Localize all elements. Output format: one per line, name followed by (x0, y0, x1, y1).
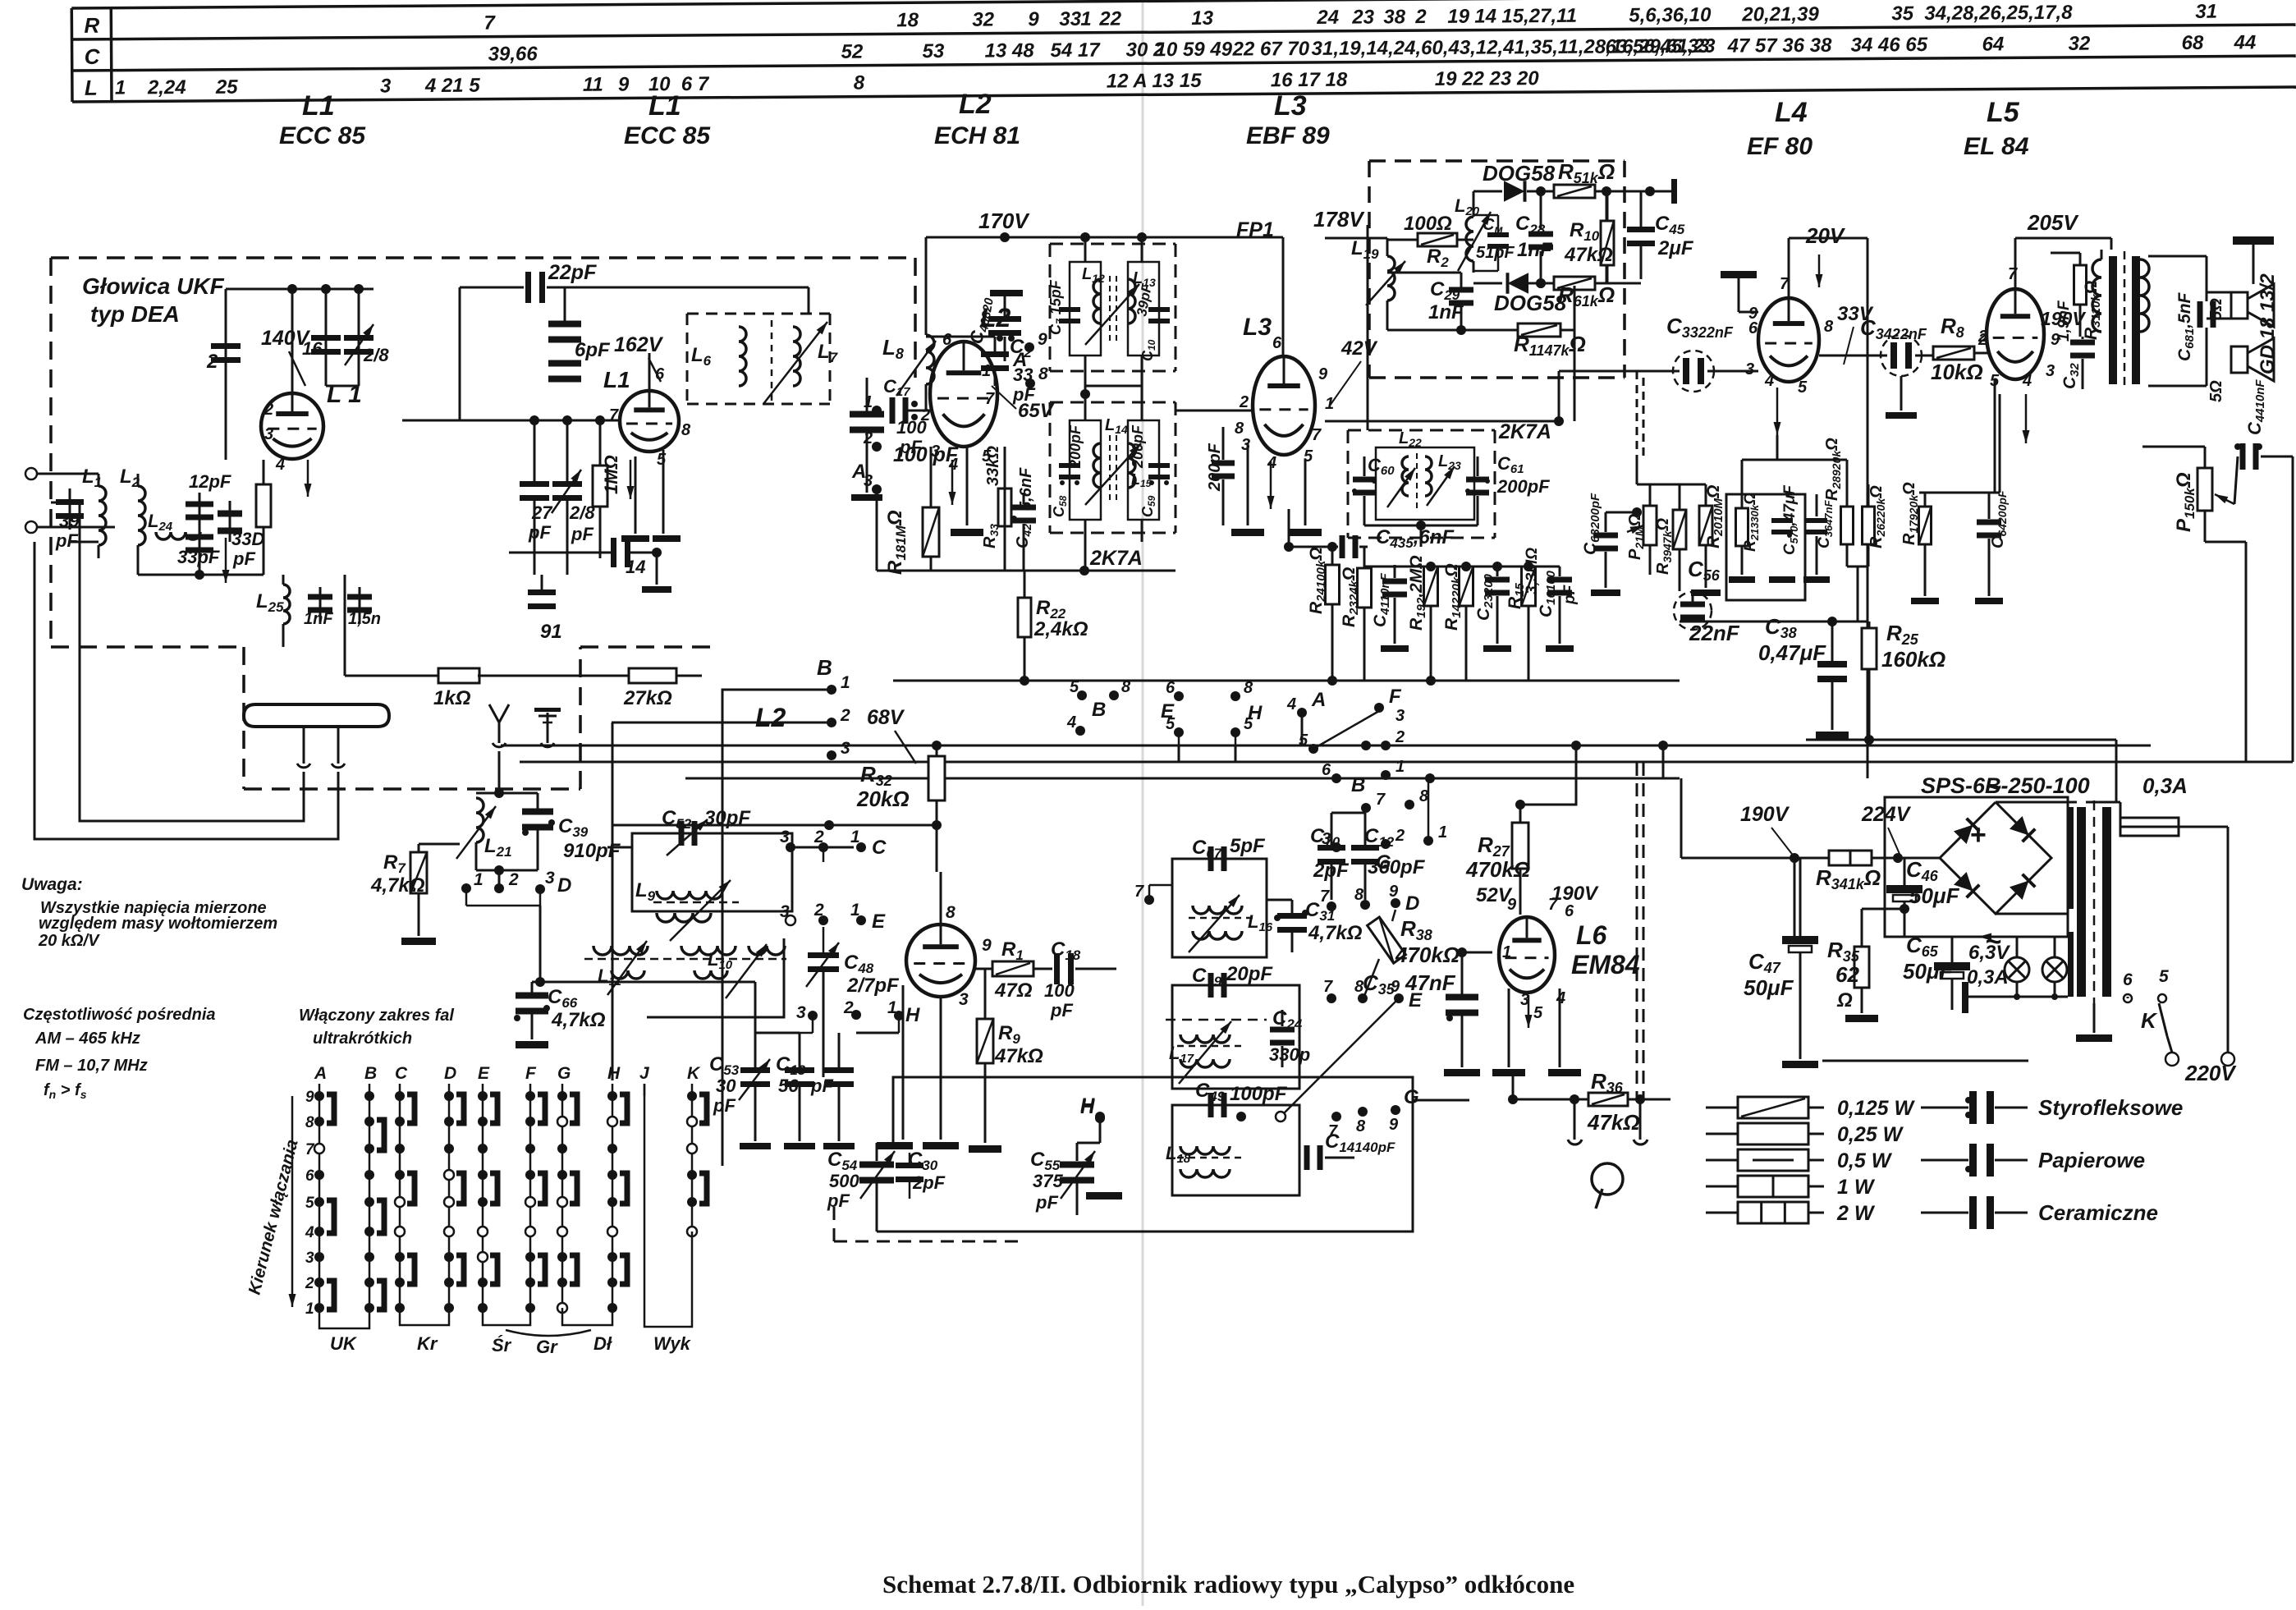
svg-text:2: 2 (206, 351, 218, 373)
svg-text:190V: 190V (1551, 883, 1599, 905)
svg-text:47kΩ: 47kΩ (1587, 1110, 1640, 1135)
svg-text:C60​: C60​ (1368, 455, 1395, 478)
grid input C17 100pF (872, 406, 882, 415)
svg-text:C52​: C52​ (662, 807, 692, 832)
triode 1 of UKF ECC85 (261, 393, 323, 459)
svg-text:6pF: 6pF (575, 339, 611, 361)
capacitor 33pF (199, 532, 201, 568)
svg-text:6: 6 (1748, 319, 1758, 337)
L20 var coil (1466, 217, 1473, 261)
svg-text:C39​: C39​ (558, 815, 589, 840)
FP1 left winding (1070, 262, 1101, 355)
svg-text:13 48: 13 48 (985, 39, 1035, 62)
svg-text:C55​: C55​ (1030, 1149, 1061, 1173)
svg-text:Ceramiczne: Ceramiczne (2038, 1200, 2158, 1225)
svg-text:5pF: 5pF (1230, 835, 1266, 857)
svg-text:4: 4 (275, 456, 285, 474)
svg-text:6 7: 6 7 (681, 73, 710, 95)
wire from D to L11 area (540, 981, 755, 984)
27pF cap (534, 420, 536, 483)
svg-text:6,3V: 6,3V (1968, 942, 2010, 964)
svg-text:1: 1 (1502, 943, 1511, 961)
svg-text:9: 9 (1389, 1116, 1399, 1134)
power transformer (2077, 807, 2086, 997)
1nF cap (319, 587, 322, 624)
svg-text:8: 8 (854, 72, 865, 94)
EM84 tube (1499, 917, 1555, 993)
svg-text:L11​: L11​ (598, 966, 621, 988)
L2 L24 coils (137, 474, 140, 486)
svg-text:R341k​Ω: R341k​Ω (1816, 865, 1881, 892)
svg-text:6: 6 (1272, 334, 1282, 352)
svg-text:1nF: 1nF (304, 610, 333, 628)
svg-text:6: 6 (305, 1167, 314, 1185)
svg-text:3: 3 (841, 739, 850, 758)
svg-text:39,66: 39,66 (488, 43, 538, 65)
svg-text:D: D (557, 874, 571, 897)
oscillator dashed gang line (834, 1241, 1018, 1243)
svg-text:R36​: R36​ (1591, 1069, 1624, 1096)
svg-text:170V: 170V (978, 209, 1030, 233)
svg-text:33: 33 (1059, 8, 1082, 30)
svg-text:25: 25 (215, 76, 239, 99)
svg-text:1 W: 1 W (1837, 1176, 1876, 1199)
P2 1M pot (1643, 506, 1657, 545)
22pF coupling cap (460, 287, 524, 289)
P1 50k potentiometer (2197, 468, 2212, 511)
svg-text:Cм​: Cм​ (1483, 216, 1503, 236)
svg-text:C56​: C56​ (1688, 557, 1721, 584)
svg-text:B: B (1092, 699, 1106, 721)
K switch (2124, 994, 2132, 1002)
svg-text:pF: pF (1561, 584, 1579, 605)
C32 1,9nF (2070, 340, 2095, 346)
svg-text:2: 2 (813, 901, 824, 920)
svg-text:3: 3 (2046, 362, 2055, 380)
svg-text:2 W: 2 W (1836, 1202, 1876, 1225)
CM 51pF trimmer (1487, 232, 1509, 237)
dashed shield lines (1636, 763, 1638, 1100)
svg-text:L8​: L8​ (882, 335, 904, 362)
svg-text:R14220k​Ω: R14220k​Ω (1442, 563, 1464, 631)
svg-text:Uwaga:: Uwaga: (21, 875, 83, 894)
L3 anode wire (1282, 237, 1285, 358)
R32 20kOhm resistor (928, 756, 945, 800)
R7 resistor (410, 852, 427, 893)
oscillator block outline (893, 1077, 1413, 1232)
6pF cap (548, 321, 581, 328)
pins 3 2 1 H (808, 1011, 818, 1021)
svg-text:1,9nF: 1,9nF (2055, 300, 2073, 342)
svg-text:A: A (314, 1064, 327, 1083)
svg-text:51pF: 51pF (1476, 244, 1515, 262)
input terminals (25, 468, 37, 479)
L3 grid wire to FP1 (1175, 410, 1253, 412)
svg-text:2: 2 (1239, 393, 1249, 411)
svg-text:0,3A: 0,3A (2142, 773, 2188, 798)
svg-text:20 kΩ/V: 20 kΩ/V (38, 932, 100, 950)
svg-text:6: 6 (1166, 679, 1175, 697)
C42 5,6nF cap (1011, 505, 1036, 511)
svg-text:8: 8 (681, 421, 691, 439)
svg-text:ultrakrótkich: ultrakrótkich (313, 1030, 412, 1048)
svg-text:7: 7 (609, 406, 619, 424)
svg-text:A: A (1311, 689, 1326, 711)
EM84 grounds (1508, 988, 1510, 1067)
main rail y829 (893, 680, 1680, 682)
svg-text:Wyk: Wyk (653, 1333, 692, 1354)
earth symbol (547, 713, 549, 743)
detector out wire (1574, 330, 1576, 421)
R9 47kOhm (977, 1019, 993, 1063)
svg-text:D: D (444, 1064, 456, 1083)
svg-text:R27​: R27​ (1478, 833, 1510, 860)
svg-text:5,6nF: 5,6nF (1017, 467, 1035, 511)
svg-text:9: 9 (1389, 883, 1399, 901)
output transformer (2092, 259, 2101, 332)
svg-text:4: 4 (1066, 713, 1076, 732)
R26 220k (1863, 507, 1875, 544)
R33 33k resistor (998, 489, 1011, 526)
svg-text:C32​: C32​ (2060, 362, 2082, 389)
svg-text:Gr: Gr (536, 1337, 558, 1357)
L1 input coil (69, 489, 71, 530)
svg-text:5: 5 (1070, 678, 1079, 696)
svg-text:Styrofleksowe: Styrofleksowe (2038, 1095, 2183, 1120)
svg-text:C13​: C13​ (776, 1053, 806, 1078)
svg-text:Śr: Śr (492, 1335, 512, 1355)
svg-text:C23200​: C23200​ (1474, 573, 1496, 621)
svg-text:100pF: 100pF (1230, 1083, 1288, 1105)
svg-text:R181M​Ω: R181M​Ω (884, 510, 909, 575)
svg-text:C17​: C17​ (883, 376, 910, 399)
svg-text:C47​: C47​ (1748, 949, 1781, 976)
svg-text:fn​ > fs​: fn​ > fs​ (44, 1081, 87, 1101)
svg-text:1nF: 1nF (1517, 239, 1553, 261)
R1 47Ohm (975, 968, 992, 970)
L16 coil (1193, 906, 1242, 914)
svg-text:C3322nF​: C3322nF​ (1666, 314, 1734, 341)
svg-text:6: 6 (1322, 761, 1331, 779)
bottom connections (138, 574, 264, 576)
svg-text:C4110nF​: C4110nF​ (1371, 572, 1392, 627)
svg-text:C35​: C35​ (1363, 970, 1395, 998)
svg-text:R9​: R9​ (998, 1022, 1020, 1047)
svg-text:ECC 85: ECC 85 (624, 122, 711, 149)
R35 62 (1854, 947, 1869, 988)
cathode arrow (307, 460, 309, 497)
svg-text:Schemat 2.7.8/II. Odbiornik ra: Schemat 2.7.8/II. Odbiornik radiowy typu… (882, 1570, 1574, 1599)
svg-text:2: 2 (863, 429, 873, 447)
svg-text:162V: 162V (614, 333, 664, 356)
svg-text:2: 2 (1395, 728, 1405, 746)
svg-text:L7​: L7​ (818, 341, 839, 365)
svg-text:A: A (1012, 349, 1027, 371)
L4 tube (1758, 298, 1819, 382)
legend resistor 0,25W (1706, 1133, 1739, 1135)
svg-text:12 A 13 15: 12 A 13 15 (1107, 70, 1202, 93)
C45 2uF (1627, 227, 1655, 232)
svg-text:L5: L5 (1987, 97, 2020, 128)
legend resistor 1W (1706, 1186, 1739, 1188)
svg-text:1: 1 (982, 362, 991, 380)
R2 100 Ohm (1418, 233, 1457, 246)
svg-text:K: K (687, 1064, 701, 1083)
svg-text:3: 3 (1745, 360, 1754, 378)
svg-text:44: 44 (2234, 31, 2257, 53)
R6 1k (1554, 277, 1595, 290)
pins 7 8 9 E (1327, 993, 1336, 1003)
svg-text:C29​: C29​ (1430, 278, 1460, 303)
svg-text:2pF: 2pF (912, 1172, 946, 1193)
svg-text:P150k​Ω: P150k​Ω (2173, 472, 2197, 532)
svg-text:DOG58: DOG58 (1494, 291, 1567, 315)
svg-text:L24​: L24​ (148, 511, 173, 534)
svg-text:0,25 W: 0,25 W (1837, 1123, 1904, 1146)
svg-text:C3647nF​: C3647nF​ (1816, 499, 1835, 548)
speaker top ground (2233, 236, 2274, 245)
legend cap styroflex (1921, 1107, 1968, 1109)
svg-text:C4410nF​: C4410nF​ (2244, 379, 2267, 435)
svg-text:1: 1 (841, 673, 850, 692)
svg-text:R1​: R1​ (1001, 938, 1024, 963)
svg-text:2: 2 (508, 870, 519, 889)
svg-text:1kΩ: 1kΩ (433, 687, 471, 709)
svg-text:19 22 23 20: 19 22 23 20 (1435, 67, 1540, 90)
svg-text:pF: pF (899, 437, 922, 457)
svg-text:L15​: L15​ (1131, 471, 1152, 489)
svg-text:10kΩ: 10kΩ (1931, 360, 1983, 384)
cathode grounds L3 (1247, 443, 1249, 525)
svg-text:100: 100 (896, 417, 927, 438)
pins 7 8 9 G (1331, 1112, 1341, 1121)
svg-text:8: 8 (1244, 679, 1253, 697)
svg-text:G: G (1404, 1086, 1419, 1108)
svg-text:pF: pF (1050, 1000, 1073, 1021)
transformer ground (2093, 1003, 2096, 1033)
svg-text:9: 9 (1038, 330, 1047, 349)
svg-text:200pF: 200pF (1067, 424, 1084, 469)
svg-text:7: 7 (1312, 426, 1322, 444)
C48 2/7pF trimmer (823, 927, 825, 952)
svg-text:5: 5 (1299, 732, 1308, 750)
R18 1M resistor (923, 507, 939, 557)
L7 coil (793, 327, 800, 386)
svg-text:4: 4 (305, 1224, 314, 1241)
svg-text:2/8: 2/8 (569, 502, 595, 523)
svg-text:C: C (872, 837, 887, 859)
svg-text:C435​,6nF: C435​,6nF (1376, 526, 1455, 551)
C29 1nF (1449, 287, 1473, 293)
antenna feed wires (51, 502, 304, 821)
svg-text:68: 68 (2182, 32, 2205, 54)
svg-text:3: 3 (959, 990, 969, 1009)
R14 220k (1460, 566, 1473, 606)
dot junction under FP1 (1080, 389, 1090, 399)
C28 1nF (1528, 232, 1553, 237)
svg-text:L22​: L22​ (1399, 429, 1422, 449)
C70 2pF (1318, 845, 1345, 851)
svg-text:39: 39 (59, 511, 80, 531)
svg-text:2K7A: 2K7A (1089, 547, 1143, 570)
R24 100k (1326, 565, 1340, 604)
L10 L11 coils (593, 946, 648, 955)
svg-text:34,28,26,25,17,8: 34,28,26,25,17,8 (1924, 2, 2073, 25)
legend cap paper (1921, 1159, 1968, 1162)
svg-text:EL 84: EL 84 (1964, 133, 2029, 160)
L22 L23 coils (1376, 447, 1474, 520)
L19 coil (1387, 256, 1395, 300)
svg-text:GD 18 13/2: GD 18 13/2 (2257, 273, 2279, 374)
svg-text:56: 56 (778, 1076, 799, 1096)
L5 cathode network R17 C64 (1994, 379, 1996, 493)
svg-text:R10​: R10​ (1570, 219, 1600, 244)
svg-text:1: 1 (850, 828, 860, 846)
C12 360pF (1351, 845, 1379, 851)
svg-text:3: 3 (545, 869, 555, 888)
FP1 right winding (1128, 262, 1159, 355)
svg-text:pF: pF (528, 522, 551, 543)
detector dashed box (1369, 159, 1625, 163)
svg-text:330p: 330p (1269, 1044, 1310, 1065)
R8 10k (1933, 346, 1974, 360)
svg-text:160kΩ: 160kΩ (1881, 647, 1945, 672)
svg-text:2pF: 2pF (1313, 860, 1350, 882)
svg-text:R35​: R35​ (1827, 938, 1860, 965)
pins cluster A F (1297, 708, 1307, 718)
C53 30pF trimmer (740, 1067, 770, 1073)
C39 910pF cap (522, 809, 553, 815)
svg-text:500: 500 (829, 1171, 859, 1191)
svg-text:L 1: L 1 (327, 381, 362, 408)
svg-text:R51k​Ω: R51k​Ω (1558, 159, 1615, 186)
svg-text:47kΩ: 47kΩ (994, 1045, 1043, 1067)
svg-text:C54​: C54​ (827, 1149, 858, 1173)
svg-text:1: 1 (887, 998, 897, 1017)
svg-text:R17920k​Ω: R17920k​Ω (1900, 482, 1920, 545)
svg-text:0,125 W: 0,125 W (1837, 1097, 1916, 1120)
svg-text:pF: pF (571, 524, 593, 544)
svg-text:0,5 W: 0,5 W (1837, 1149, 1893, 1172)
svg-text:R8​: R8​ (1941, 314, 1964, 341)
svg-text:R7​: R7​ (383, 851, 406, 876)
rail to PSU (1806, 739, 2116, 741)
svg-text:2/7pF: 2/7pF (846, 975, 900, 997)
svg-text:L6​: L6​ (691, 344, 712, 369)
svg-text:7: 7 (1134, 883, 1144, 901)
svg-text:E: E (872, 910, 886, 933)
1M resistor (593, 466, 607, 507)
svg-text:7: 7 (1780, 275, 1790, 293)
svg-text:27kΩ: 27kΩ (623, 687, 672, 709)
svg-text:4,7kΩ: 4,7kΩ (370, 874, 425, 897)
L17 coil dashed (1166, 1019, 1267, 1021)
svg-text:AM – 465 kHz: AM – 465 kHz (34, 1030, 140, 1048)
svg-text:2: 2 (1395, 827, 1405, 845)
svg-text:20pF: 20pF (1226, 963, 1273, 985)
svg-text:91: 91 (540, 621, 562, 643)
bus wires B+ (501, 745, 2151, 747)
svg-text:16 17 18: 16 17 18 (1271, 69, 1348, 92)
C68 1,5nF (2197, 301, 2203, 328)
svg-text:DOG58: DOG58 (1483, 161, 1556, 186)
svg-text:2: 2 (305, 1275, 314, 1292)
svg-text:K: K (2141, 1008, 2158, 1033)
svg-text:L4: L4 (1775, 97, 1808, 128)
pins 7 8 9 D (1327, 901, 1336, 911)
svg-text:1: 1 (115, 77, 126, 99)
C18 100pF (1054, 953, 1060, 984)
R23 24k (1358, 568, 1372, 608)
svg-text:2: 2 (1414, 6, 1427, 28)
R19 2,2M (1424, 566, 1438, 606)
15n cap (359, 587, 361, 624)
svg-text:30: 30 (716, 1076, 736, 1096)
PSU risers to bus (2115, 762, 2118, 802)
ground bar top-left of L4 (1721, 271, 1757, 278)
svg-text:1: 1 (864, 393, 873, 411)
svg-text:L1: L1 (603, 367, 630, 392)
C23 200 (1485, 577, 1510, 583)
svg-text:190V: 190V (1740, 803, 1790, 826)
svg-text:3: 3 (796, 1003, 806, 1022)
svg-text:375: 375 (1033, 1171, 1063, 1191)
svg-text:C: C (85, 44, 101, 69)
svg-text:54 17: 54 17 (1051, 39, 1102, 62)
A pins 9 8 (1024, 342, 1034, 352)
svg-text:R28920k​Ω: R28920k​Ω (1823, 438, 1843, 501)
C41 10nF (1382, 579, 1407, 585)
IF2 right winding (1128, 420, 1159, 520)
svg-text:L19​: L19​ (1351, 237, 1379, 262)
svg-text:8: 8 (1824, 318, 1834, 336)
C14 140pF (1304, 1145, 1310, 1170)
C66 cap 4,7k (535, 977, 545, 987)
svg-text:B: B (817, 655, 832, 680)
svg-text:14: 14 (1474, 5, 1496, 27)
svg-text:22: 22 (1098, 8, 1122, 30)
pins 3 2 1 C (786, 842, 795, 852)
svg-text:47kΩ: 47kΩ (1564, 244, 1613, 266)
svg-text:1: 1 (1395, 758, 1405, 776)
switch pins 1 2 3 D (461, 883, 471, 893)
legend resistor 0,125W (1706, 1107, 1739, 1109)
svg-text:Papierowe: Papierowe (2038, 1148, 2145, 1172)
svg-text:R33​: R33​ (981, 524, 1001, 548)
svg-text:7: 7 (985, 390, 995, 408)
long vertical from detector (1367, 225, 1369, 430)
svg-text:Kierunek włączania: Kierunek włączania (245, 1137, 302, 1296)
svg-text:pF: pF (1035, 1192, 1058, 1213)
capacitor 12pF (199, 493, 201, 532)
oscillator triode (906, 924, 975, 997)
svg-text:1: 1 (1080, 8, 1092, 30)
svg-text:L2: L2 (959, 89, 992, 120)
chain top wire (1364, 566, 1560, 568)
L4 anode supply (1789, 237, 1868, 240)
feed line at 1005 (612, 824, 937, 827)
C63 200pF (1593, 533, 1618, 539)
svg-text:42V: 42V (1340, 337, 1378, 360)
svg-text:C42​: C42​ (1014, 524, 1033, 548)
svg-text:22nF: 22nF (1689, 621, 1740, 645)
legend cap ceramic (1921, 1212, 1968, 1214)
svg-text:47 57 36 38: 47 57 36 38 (1727, 34, 1833, 57)
IF2 left winding (1070, 420, 1101, 520)
svg-text:33kΩ: 33kΩ (984, 446, 1002, 486)
speakers GD18 (2231, 292, 2248, 319)
svg-text:H: H (607, 1064, 621, 1083)
